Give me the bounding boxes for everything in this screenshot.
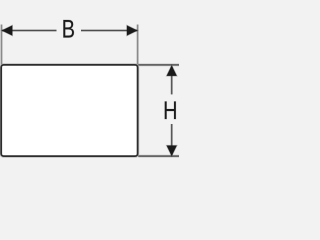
svg-text:H: H [163,95,177,124]
svg-text:B: B [62,14,75,43]
